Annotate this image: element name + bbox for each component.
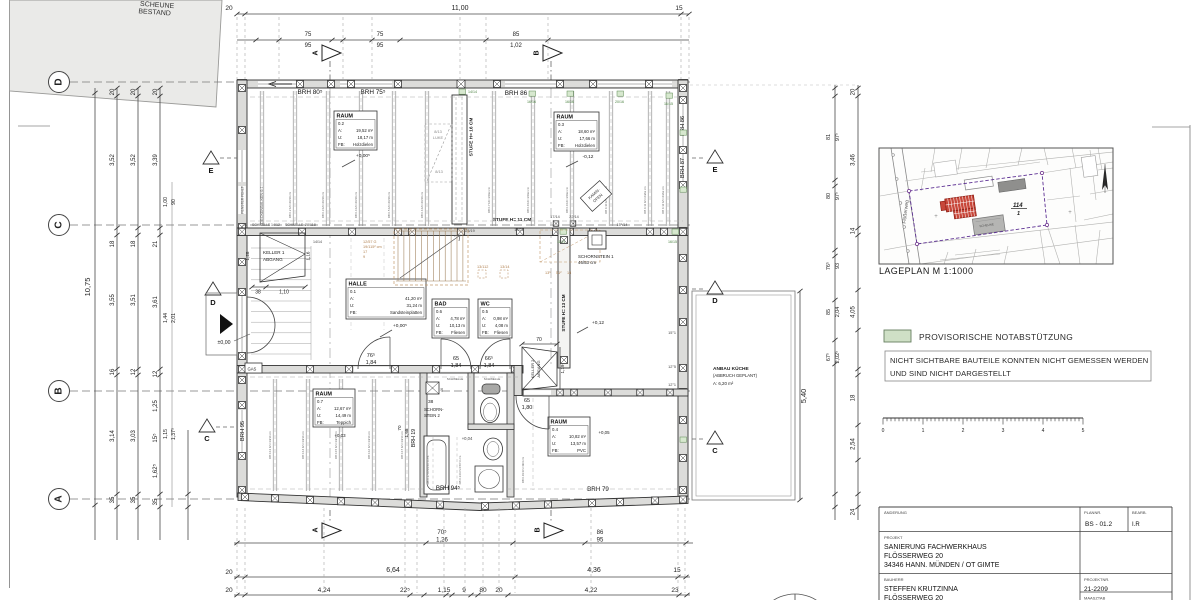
svg-text:4,36: 4,36	[587, 567, 601, 574]
svg-text:A:: A:	[338, 128, 342, 133]
svg-text:12: 12	[131, 368, 137, 375]
svg-text:18/21: 18/21	[514, 228, 524, 232]
barn label	[138, 1, 175, 18]
bath joist dashes	[432, 437, 434, 492]
svg-text:GAS: GAS	[248, 367, 257, 372]
svg-text:FENSTER FEHLT: FENSTER FEHLT	[241, 186, 245, 213]
toilet bowl	[481, 398, 500, 423]
hall floor lines	[251, 247, 311, 249]
bathtub	[424, 436, 449, 494]
grid circle B	[49, 381, 70, 402]
svg-text:FB:: FB:	[317, 420, 324, 425]
svg-text:12/57 G: 12/57 G	[363, 240, 377, 244]
svg-text:UND SIND NICHT DARGESTELLT: UND SIND NICHT DARGESTELLT	[890, 369, 1011, 378]
svg-text:(ABBRUCH GEPLANT): (ABBRUCH GEPLANT)	[713, 373, 758, 378]
svg-text:DB 0.2 b/h=20/19 cm: DB 0.2 b/h=20/19 cm	[288, 191, 292, 218]
svg-text:ABGANG: ABGANG	[536, 360, 541, 377]
svg-text:95: 95	[597, 538, 604, 544]
green labels row C	[560, 229, 567, 234]
svg-text:24: 24	[851, 508, 857, 515]
bath wall mid	[468, 373, 474, 428]
svg-text:16/16: 16/16	[527, 100, 536, 104]
svg-text:B: B	[534, 50, 541, 55]
room label 0.7	[313, 389, 355, 427]
site plan boundary	[909, 173, 1047, 244]
svg-text:+0,00⁵: +0,00⁵	[356, 153, 370, 159]
svg-text:ABGANG: ABGANG	[263, 257, 283, 262]
svg-text:0.4: 0.4	[552, 427, 559, 432]
svg-text:1,84: 1,84	[484, 363, 495, 369]
sink	[484, 438, 503, 460]
svg-text:+: +	[934, 214, 938, 220]
svg-text:13/14: 13/14	[500, 265, 510, 269]
svg-text:18: 18	[851, 394, 857, 401]
svg-text:21-2209: 21-2209	[1084, 586, 1108, 593]
wall top direction arrow	[269, 82, 292, 87]
bottom dim line 3	[234, 594, 690, 596]
section marker D left	[205, 282, 221, 295]
svg-text:0: 0	[882, 428, 885, 434]
svg-text:16/16: 16/16	[565, 100, 574, 104]
svg-text:SCHORNSTEIN 1: SCHORNSTEIN 1	[578, 254, 614, 259]
svg-text:12: 12	[153, 370, 159, 377]
svg-text:SCHWELLE: SCHWELLE	[252, 223, 271, 227]
svg-text:DB 0.14 b/h=15/7.6 cm: DB 0.14 b/h=15/7.6 cm	[458, 455, 462, 484]
svg-text:31,24 m: 31,24 m	[406, 303, 422, 308]
svg-text:13,57 m: 13,57 m	[570, 441, 586, 446]
left dim chain x=160	[159, 88, 161, 540]
svg-text:DB 0.19 b/h=19/4 cm: DB 0.19 b/h=19/4 cm	[521, 456, 525, 483]
svg-text:Fliesen: Fliesen	[494, 330, 508, 335]
svg-text:PROJEKT: PROJEKT	[884, 535, 903, 540]
svg-text:35: 35	[110, 496, 116, 503]
wall top posts	[238, 80, 247, 89]
svg-text:1,00: 1,00	[163, 197, 169, 207]
grid line B	[70, 390, 690, 392]
svg-text:14: 14	[851, 227, 857, 234]
svg-text:A:: A:	[436, 316, 440, 321]
svg-text:B: B	[54, 387, 65, 394]
wall row B left interior	[237, 366, 523, 374]
svg-text:BRH 19: BRH 19	[411, 429, 417, 447]
section marker D right	[707, 281, 723, 294]
svg-text:BAUHERR: BAUHERR	[884, 577, 904, 582]
svg-text:STEFFEN KRUTZINNA: STEFFEN KRUTZINNA	[884, 586, 958, 593]
svg-text:NICHT SICHTBARE BAUTEILE KONNT: NICHT SICHTBARE BAUTEILE KONNTEN NICHT G…	[890, 356, 1148, 365]
stair wall stufe16	[452, 95, 467, 224]
grid line A	[70, 498, 690, 500]
svg-text:FB:: FB:	[558, 143, 565, 148]
svg-text:75: 75	[305, 32, 312, 38]
svg-text:18: 18	[110, 240, 116, 247]
kamin ofen	[580, 181, 611, 212]
svg-text:0.3: 0.3	[558, 122, 565, 127]
svg-text:9: 9	[363, 255, 365, 259]
svg-text:A: A	[54, 495, 65, 502]
svg-text:STEIN 2: STEIN 2	[424, 413, 440, 418]
svg-text:+0,03: +0,03	[334, 433, 346, 438]
svg-text:KELLER 1: KELLER 1	[263, 250, 285, 255]
svg-text:1: 1	[1017, 211, 1020, 217]
svg-text:DB 0.12 b/h=24/xx cm: DB 0.12 b/h=24/xx cm	[661, 186, 665, 214]
svg-text:80: 80	[826, 193, 832, 199]
detail circle bottom	[755, 594, 835, 600]
luke hatch	[425, 124, 452, 182]
svg-text:14,49 m: 14,49 m	[335, 413, 351, 418]
svg-text:E: E	[208, 166, 213, 175]
section marker C left	[199, 419, 215, 432]
chimney schornstein 2	[426, 382, 439, 394]
svg-text:2,02⁵: 2,02⁵	[835, 351, 841, 364]
room label halle	[346, 279, 426, 319]
section marker E left	[203, 151, 219, 164]
svg-text:8/13: 8/13	[435, 169, 443, 174]
svg-text:3,52: 3,52	[131, 154, 137, 166]
svg-text:FB:: FB:	[436, 330, 443, 335]
guide lines bottom	[236, 508, 238, 593]
svg-text:114: 114	[1013, 203, 1023, 209]
svg-text:11,00: 11,00	[452, 5, 469, 12]
svg-text:2,04: 2,04	[835, 307, 841, 318]
wall right exterior	[678, 80, 688, 497]
hall dashed verticals	[350, 238, 352, 330]
svg-text:E: E	[712, 165, 717, 174]
green labels top wall	[459, 89, 466, 94]
site plan red building	[940, 195, 977, 221]
svg-text:15⁵/14: 15⁵/14	[616, 223, 627, 227]
grid circle D	[49, 72, 70, 93]
svg-text:BRH 86: BRH 86	[505, 90, 528, 97]
svg-text:RAUM: RAUM	[337, 114, 354, 120]
svg-text:13⁵: 13⁵	[545, 271, 551, 275]
svg-text:DB 0.13 b/h=14/14 cm: DB 0.13 b/h=14/14 cm	[268, 430, 272, 459]
svg-text:D: D	[54, 78, 65, 85]
svg-text:5,40: 5,40	[799, 389, 808, 404]
svg-text:1,15: 1,15	[163, 429, 169, 439]
svg-text:66⁵: 66⁵	[485, 355, 493, 362]
site plan parcel lines	[880, 191, 909, 196]
toilet tank	[482, 384, 500, 394]
svg-text:PVC: PVC	[577, 448, 586, 453]
svg-text:RAUM: RAUM	[551, 420, 568, 426]
svg-text:28/118: 28/118	[305, 223, 316, 227]
svg-text:38: 38	[255, 290, 261, 296]
svg-text:70⁵: 70⁵	[437, 529, 447, 536]
svg-text:20: 20	[153, 88, 159, 95]
top dim line windows	[237, 39, 689, 41]
wall row C posts	[239, 228, 246, 235]
svg-text:18: 18	[131, 240, 137, 247]
section flag B bottom	[544, 523, 563, 538]
svg-text:20: 20	[131, 88, 137, 95]
svg-text:20: 20	[110, 88, 116, 95]
svg-text:15: 15	[673, 567, 681, 574]
svg-text:1,84: 1,84	[451, 363, 462, 369]
svg-text:15⁵: 15⁵	[152, 433, 159, 443]
svg-text:1,19: 1,19	[560, 364, 565, 373]
bad door	[441, 339, 471, 369]
svg-text:A: A	[313, 527, 320, 532]
grid circle C	[49, 215, 70, 236]
wall row B right interior	[523, 389, 688, 396]
svg-text:10,82 m²: 10,82 m²	[569, 434, 587, 439]
svg-text:BRH 95: BRH 95	[240, 421, 246, 441]
svg-text:0,98 m²: 0,98 m²	[493, 316, 508, 321]
svg-text:RAUM: RAUM	[316, 392, 333, 398]
svg-text:FB:: FB:	[482, 330, 489, 335]
svg-text:76⁵: 76⁵	[367, 352, 375, 359]
svg-text:65: 65	[453, 356, 459, 362]
svg-text:A:: A:	[558, 129, 562, 134]
svg-text:10,75: 10,75	[83, 278, 92, 297]
svg-text:20: 20	[225, 569, 233, 576]
right dim chain inner	[834, 85, 836, 520]
grid line C	[70, 224, 690, 226]
svg-text:DB 0.14 b/h=14/14 cm: DB 0.14 b/h=14/14 cm	[301, 430, 305, 459]
svg-text:DB 0.8 b/h=24/xx cm: DB 0.8 b/h=24/xx cm	[526, 186, 530, 213]
svg-text:8/13: 8/13	[434, 129, 442, 134]
svg-text:1,84: 1,84	[366, 360, 377, 366]
grid line D	[70, 81, 690, 83]
section line A-A	[329, 88, 331, 497]
svg-text:U:: U:	[558, 136, 562, 141]
svg-text:MAASZTAB: MAASZTAB	[1084, 596, 1106, 600]
svg-text:SCHORN-: SCHORN-	[424, 407, 444, 412]
svg-text:14/12: 14/12	[271, 223, 280, 227]
svg-text:0.2: 0.2	[338, 121, 345, 126]
svg-text:1,37⁵: 1,37⁵	[171, 428, 177, 440]
svg-text:BRH 87: BRH 87	[680, 158, 686, 178]
svg-text:18,17 m: 18,17 m	[357, 135, 373, 140]
joists room 0.7	[272, 379, 274, 491]
bottom dim line 2	[234, 576, 690, 578]
main stair treads	[397, 231, 399, 281]
svg-text:U:: U:	[482, 323, 486, 328]
left dim chain x=138	[137, 88, 139, 540]
svg-text:BS - 01.2: BS - 01.2	[1085, 521, 1112, 528]
svg-text:±0,00: ±0,00	[218, 340, 231, 346]
left dim chain total 10,75	[94, 88, 96, 540]
svg-text:PROJEKTNR.: PROJEKTNR.	[1084, 577, 1109, 582]
page border tick right	[1152, 126, 1190, 128]
svg-text:DB 0.11 b/h=24/xx cm: DB 0.11 b/h=24/xx cm	[643, 186, 647, 214]
stair landing dashed	[540, 230, 600, 262]
svg-text:B: B	[535, 527, 542, 532]
note box	[885, 351, 1151, 381]
svg-text:A: A	[313, 50, 320, 55]
svg-text:WC: WC	[481, 302, 490, 308]
svg-text:46: 46	[440, 388, 444, 392]
svg-text:SCHWELLE: SCHWELLE	[447, 377, 464, 381]
svg-text:7/9: 7/9	[242, 223, 247, 227]
svg-text:FB:: FB:	[350, 310, 357, 315]
svg-text:81: 81	[826, 134, 832, 140]
svg-text:11/21: 11/21	[557, 240, 566, 244]
svg-text:0.1: 0.1	[350, 289, 357, 294]
svg-text:LUKE: LUKE	[433, 135, 444, 140]
svg-text:13: 13	[567, 271, 571, 275]
svg-text:A:: A:	[350, 296, 354, 301]
site plan north arrow	[1102, 164, 1108, 190]
svg-text:RAUM: RAUM	[557, 115, 574, 121]
svg-text:12°1: 12°1	[668, 383, 676, 387]
section flag A bottom	[322, 523, 341, 538]
svg-text:3,46: 3,46	[851, 154, 857, 166]
page border small tick left	[18, 125, 50, 127]
svg-text:16/15: 16/15	[664, 102, 673, 106]
svg-text:-0,12: -0,12	[583, 154, 594, 160]
left dim chain x=117	[116, 88, 118, 540]
svg-text:Teppich: Teppich	[336, 420, 351, 425]
svg-text:12°5: 12°5	[668, 365, 676, 369]
svg-text:3: 3	[1002, 428, 1005, 434]
left inner dim chain	[171, 182, 173, 507]
svg-text:70: 70	[536, 337, 542, 343]
svg-text:9: 9	[462, 587, 466, 594]
svg-text:BEARB.: BEARB.	[1132, 510, 1147, 515]
svg-text:95: 95	[377, 43, 384, 49]
svg-text:4: 4	[1042, 428, 1045, 434]
svg-text:1,68: 1,68	[404, 428, 409, 437]
svg-text:17: 17	[363, 250, 367, 254]
interior wall stufe13	[558, 228, 570, 368]
svg-text:+0,04: +0,04	[462, 436, 473, 441]
svg-text:76⁵: 76⁵	[826, 262, 832, 270]
svg-text:46/53 cm: 46/53 cm	[578, 260, 596, 265]
entrance porch outline	[206, 293, 237, 355]
svg-text:97⁵: 97⁵	[835, 133, 841, 141]
keller 1 abgang	[260, 233, 305, 282]
svg-text:1,28: 1,28	[245, 251, 250, 260]
svg-text:BRH 80⁵: BRH 80⁵	[297, 89, 322, 96]
svg-text:95: 95	[305, 43, 312, 49]
svg-text:17,66 m: 17,66 m	[579, 136, 595, 141]
svg-text:1,25: 1,25	[153, 400, 159, 412]
main stair arrow	[400, 235, 460, 278]
svg-text:16/15: 16/15	[668, 240, 677, 244]
svg-text:3,61: 3,61	[153, 296, 159, 308]
svg-text:FB:: FB:	[552, 448, 559, 453]
svg-text:A:: A:	[552, 434, 556, 439]
svg-text:34346 HANN. MÜNDEN / OT GIMTE: 34346 HANN. MÜNDEN / OT GIMTE	[884, 561, 1000, 569]
svg-text:A: 6,20 m²: A: 6,20 m²	[713, 381, 734, 386]
title block frame	[879, 506, 1172, 508]
svg-text:DB 0.17 b/h=15/7.6 cm: DB 0.17 b/h=15/7.6 cm	[426, 455, 430, 484]
svg-text:2,54: 2,54	[851, 438, 857, 450]
svg-text:ANBAU KÜCHE: ANBAU KÜCHE	[713, 365, 750, 372]
svg-text:2,01: 2,01	[171, 313, 177, 323]
svg-text:A:: A:	[317, 406, 321, 411]
svg-text:DB 0.6 b/h=20/19 cm: DB 0.6 b/h=20/19 cm	[420, 191, 424, 218]
svg-text:I.R: I.R	[1132, 522, 1140, 528]
svg-text:C: C	[54, 221, 65, 228]
svg-text:10,13 m: 10,13 m	[449, 323, 465, 328]
svg-text:51²: 51²	[556, 271, 562, 275]
svg-text:DB 0.3 b/h=20/19 cm: DB 0.3 b/h=20/19 cm	[321, 191, 325, 218]
svg-text:DB 0.7 b/h=24/xx cm: DB 0.7 b/h=24/xx cm	[487, 186, 491, 213]
svg-text:U:: U:	[338, 135, 342, 140]
svg-text:D: D	[210, 298, 216, 307]
wall bottom posts	[242, 494, 249, 501]
chimney schornstein 1	[588, 231, 606, 249]
svg-text:17/14: 17/14	[550, 215, 560, 219]
svg-text:4,05: 4,05	[851, 306, 857, 318]
svg-text:67⁵: 67⁵	[826, 353, 832, 361]
svg-text:+0,00⁵: +0,00⁵	[393, 323, 407, 329]
svg-text:Holzdielen: Holzdielen	[575, 143, 596, 148]
bath wall right	[507, 373, 514, 497]
svg-text:3,55: 3,55	[110, 294, 116, 306]
existing barn outline SCHEUNE BESTAND	[10, 0, 223, 107]
svg-text:1: 1	[922, 428, 925, 434]
svg-text:35: 35	[131, 496, 137, 503]
svg-text:20/16: 20/16	[615, 100, 624, 104]
svg-text:LAGEPLAN M 1:1000: LAGEPLAN M 1:1000	[879, 266, 973, 276]
svg-text:20: 20	[225, 5, 233, 12]
section flag B top	[543, 45, 562, 61]
page border left	[9, 2, 11, 588]
svg-text:+: +	[1068, 210, 1072, 216]
svg-text:BRH 79: BRH 79	[587, 486, 609, 493]
left chain x188	[187, 430, 189, 540]
svg-text:97⁵: 97⁵	[835, 192, 841, 200]
svg-text:25/19: 25/19	[465, 229, 475, 233]
svg-text:0.5: 0.5	[482, 309, 489, 314]
bath wall left	[420, 373, 427, 497]
svg-text:15: 15	[675, 5, 683, 12]
bath wall horizontal	[468, 424, 514, 430]
wall left posts	[239, 85, 246, 92]
svg-text:U:: U:	[552, 441, 556, 446]
svg-text:12,67 m²: 12,67 m²	[334, 406, 352, 411]
svg-text:86: 86	[597, 530, 604, 536]
svg-text:FLÖSSERWEG 20: FLÖSSERWEG 20	[884, 552, 943, 560]
room label 0.2	[334, 111, 377, 150]
section flag A top	[322, 45, 341, 61]
wall right posts	[680, 85, 687, 92]
svg-text:14/14: 14/14	[468, 90, 477, 94]
svg-text:1,44: 1,44	[163, 313, 169, 323]
schwelle dashed lines	[250, 96, 683, 98]
svg-text:35: 35	[153, 498, 159, 505]
svg-text:3,52: 3,52	[110, 154, 116, 166]
svg-text:1,10: 1,10	[279, 290, 289, 296]
svg-text:KELLER 2: KELLER 2	[530, 359, 535, 378]
svg-text:13/112: 13/112	[477, 265, 488, 269]
svg-text:75: 75	[377, 32, 384, 38]
wall jog	[514, 366, 522, 396]
svg-text:70: 70	[397, 425, 402, 431]
site plan small buildings	[934, 141, 1099, 201]
svg-text:PROVISORISCHE NOTABSTÜTZUNG: PROVISORISCHE NOTABSTÜTZUNG	[919, 332, 1073, 342]
wall row C interior	[237, 228, 688, 236]
svg-text:20: 20	[225, 587, 233, 594]
annex dim 5,40	[799, 291, 801, 500]
legend green swatch	[884, 330, 911, 342]
svg-text:SCHWELLE: SCHWELLE	[484, 377, 501, 381]
svg-text:SANIERUNG FACHWERKHAUS: SANIERUNG FACHWERKHAUS	[884, 544, 987, 551]
svg-text:85: 85	[513, 32, 520, 38]
site plan frame	[879, 148, 1113, 264]
raum 0.4 door	[516, 396, 549, 429]
svg-text:15°1: 15°1	[668, 331, 676, 335]
svg-text:0.6: 0.6	[436, 309, 443, 314]
svg-text:85: 85	[826, 309, 832, 315]
svg-text:2: 2	[962, 428, 965, 434]
svg-text:ÄNDERUNG: ÄNDERUNG	[884, 510, 907, 515]
svg-text:DB 0.16 b/h=14/14 cm: DB 0.16 b/h=14/14 cm	[367, 430, 371, 459]
room label bad	[432, 299, 469, 338]
